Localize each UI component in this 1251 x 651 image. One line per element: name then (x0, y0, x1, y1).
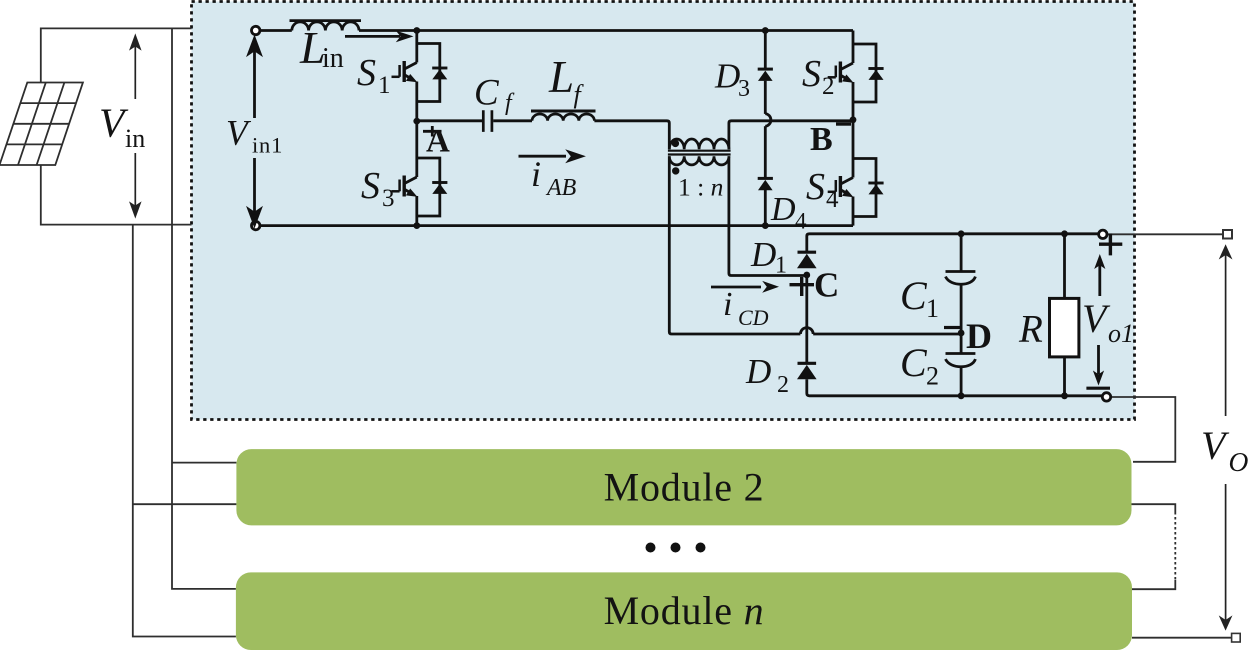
bottom rail of bridge (260, 224, 853, 227)
svg-text:2: 2 (926, 362, 939, 391)
label i_CD (723, 286, 769, 330)
wire C1 to node D (960, 284, 963, 333)
wire top rail to R (1063, 234, 1066, 299)
diode D2 (797, 363, 817, 379)
V_O arrow (double headed) (1221, 246, 1231, 628)
output terminal + (open circle) (1099, 230, 1107, 238)
capacitor C1 (946, 272, 976, 285)
wire to Module n + (1132, 580, 1175, 589)
node A dot (413, 118, 420, 125)
label 1:n (678, 173, 723, 202)
svg-text:in1: in1 (252, 133, 283, 158)
wire D4 to bottom rail (764, 190, 767, 226)
svg-text:S: S (806, 166, 825, 208)
svg-text:CD: CD (738, 305, 769, 330)
svg-text:AB: AB (545, 175, 577, 201)
wire Module n - to bottom square terminal (1132, 637, 1232, 639)
label C_f (474, 73, 515, 116)
wire hop to node D (813, 333, 961, 336)
solar panel PV1 (0, 83, 83, 166)
svg-text:1: 1 (775, 253, 787, 279)
wire node C down through hop to D2 (805, 275, 808, 362)
wire L_in to top rail (359, 29, 853, 32)
transformer secondary winding (669, 156, 729, 165)
transformer core (668, 151, 731, 155)
label L_f (548, 52, 585, 109)
node C label with + mark (790, 266, 840, 305)
Module n green box (236, 572, 1132, 650)
label L_in (299, 22, 344, 74)
transistor S2 (IGBT with antiparallel diode) (828, 31, 884, 120)
svg-text:1: 1 (378, 72, 391, 99)
svg-text:C: C (474, 73, 500, 114)
wire module1 + output to square terminal (1107, 233, 1223, 235)
svg-text:B: B (810, 121, 833, 158)
plus mark at output (1099, 234, 1122, 256)
svg-text:L: L (548, 52, 574, 102)
output terminal - (open circle) (1102, 393, 1110, 401)
resistor R (1050, 298, 1079, 357)
wire bottom bus from PV (41, 165, 192, 225)
svg-text:2: 2 (777, 372, 789, 398)
label i_AB (531, 154, 577, 201)
svg-text:3: 3 (738, 76, 750, 102)
svg-text:O: O (1229, 446, 1249, 477)
V_o1 arrow down (1093, 345, 1104, 386)
input terminal - (open circle) (252, 221, 260, 229)
label C2 (900, 340, 939, 391)
wire node D to C2 (960, 333, 963, 354)
inductor L_f (531, 111, 596, 121)
label Module n (604, 588, 765, 633)
label D3 (714, 57, 750, 103)
label D4 (770, 191, 807, 234)
svg-text:1: 1 (926, 294, 939, 323)
label V_O (1201, 423, 1249, 477)
svg-text:D: D (770, 191, 796, 228)
wire C2 to bottom rail (960, 367, 963, 396)
capacitor C1 branch: node dot on top rail (958, 230, 965, 237)
transformer secondary left lead down (669, 156, 800, 334)
node D dot (958, 330, 965, 337)
label D2 (745, 352, 789, 398)
secondary polarity dot (672, 167, 679, 174)
wire Module 2 - to dotted continuation (1132, 504, 1176, 512)
wire V+ bus down right edge to modules (172, 28, 236, 589)
diode D3 (758, 69, 773, 81)
capacitor C_f (483, 110, 492, 132)
svg-text:o1: o1 (1108, 319, 1134, 348)
svg-text:C: C (814, 266, 839, 305)
output rectifier branch: wire top rail corner to D1 (807, 234, 1099, 252)
svg-text:D: D (745, 352, 771, 391)
wire hop over B wire (765, 114, 771, 127)
svg-text:C: C (900, 273, 928, 318)
node D label with - mark (944, 316, 992, 356)
wire D2 to output bottom rail (807, 379, 1103, 396)
wire D3 to hop (764, 81, 767, 114)
transformer secondary right lead down to node C (729, 156, 807, 275)
wire top bus from PV to module 1 (41, 28, 192, 82)
svg-text:4: 4 (795, 209, 807, 234)
node dot top of S1 leg (413, 27, 420, 34)
wire top rail to D3 (764, 31, 767, 71)
square terminal top right (1223, 230, 1232, 239)
svg-text:3: 3 (382, 185, 395, 212)
module 1 boundary box (dashed, light blue) (192, 2, 1135, 420)
node dot bottom of S3 leg (413, 222, 420, 229)
svg-text:V: V (1201, 423, 1230, 468)
node dot C2 bottom (958, 392, 965, 399)
svg-text:S: S (361, 165, 380, 207)
wire R to bottom rail (1063, 357, 1066, 396)
V_o1 arrow up (1094, 254, 1105, 296)
V_in arrow (double headed) (131, 36, 140, 216)
primary polarity dot (672, 140, 679, 147)
Module 2 green box (236, 449, 1131, 525)
transistor S3 (IGBT with antiparallel diode) (392, 121, 448, 226)
diode D4 (758, 178, 773, 190)
wire branch V+ to Module 2 (172, 462, 236, 464)
dotted wire continuation (1174, 512, 1176, 580)
svg-text:in: in (125, 124, 145, 153)
wire C_f to L_f (493, 119, 532, 122)
svg-text:i: i (531, 154, 541, 194)
label S4 (806, 166, 839, 213)
wire input to L_in (260, 29, 292, 32)
diode D1 (797, 252, 817, 268)
node B label with - mark (810, 121, 851, 158)
node C dot (803, 272, 810, 279)
node A label with + mark (423, 124, 450, 160)
i_AB current arrow (519, 149, 586, 163)
svg-text:Module n: Module n (604, 588, 765, 633)
i_CD current arrow (711, 281, 779, 293)
svg-text:i: i (723, 286, 732, 323)
square terminal bottom right (1232, 633, 1241, 642)
label Module 2 (604, 464, 765, 509)
clamp branch D3/D4: node dot on top rail (762, 27, 769, 34)
svg-text:D: D (714, 57, 740, 96)
input current arrow (345, 31, 414, 43)
transistor S4 (IGBT with antiparallel diode) (828, 120, 884, 226)
input terminal + (open circle) (252, 26, 260, 34)
svg-text:D: D (966, 316, 992, 356)
svg-text:1 : n: 1 : n (678, 173, 723, 202)
label S3 (361, 165, 395, 212)
svg-text:Module 2: Module 2 (604, 464, 765, 509)
wire top rail to C1 (960, 234, 963, 272)
label V_o1 (1082, 296, 1134, 348)
transformer T1 primary winding (669, 139, 729, 149)
inductor L_in (290, 21, 362, 31)
label V_in (99, 99, 145, 153)
svg-text:R: R (1018, 308, 1043, 351)
wire hop over D1/D2 branch (800, 328, 813, 334)
node dot R bottom (1061, 392, 1068, 399)
wire V- bus down to modules (133, 225, 236, 637)
wire hop to D4 (764, 126, 767, 179)
node dot D4 bottom (762, 222, 769, 229)
wire transformer primary right to node B (729, 121, 853, 150)
label S1 (357, 52, 391, 99)
label S2 (802, 53, 835, 100)
svg-text:D: D (750, 235, 776, 274)
label C1 (900, 273, 939, 323)
transistor S1 (IGBT with antiparallel diode) (392, 31, 448, 122)
wire node A to C_f (417, 119, 482, 122)
V_in1 arrow (249, 39, 260, 225)
svg-text:2: 2 (822, 73, 835, 100)
label V_in1 (226, 112, 283, 157)
label D1 (750, 235, 787, 279)
node B dot (850, 116, 857, 123)
svg-text:in: in (322, 43, 344, 74)
label R (1018, 308, 1043, 351)
wire branch V- to Module 2 (133, 503, 237, 505)
capacitor C2 (946, 354, 976, 367)
svg-text:S: S (802, 53, 821, 95)
svg-text:4: 4 (826, 186, 839, 213)
svg-text:S: S (357, 52, 376, 94)
ellipsis dots between modules (646, 543, 706, 553)
wire module1 - output to Module 2 + (1111, 397, 1175, 462)
svg-text:C: C (900, 340, 928, 385)
resistor R branch: node dot on top rail (1061, 230, 1068, 237)
wire L_f to transformer primary left (594, 121, 669, 150)
svg-text:A: A (426, 124, 450, 160)
minus mark at output (1086, 387, 1110, 390)
